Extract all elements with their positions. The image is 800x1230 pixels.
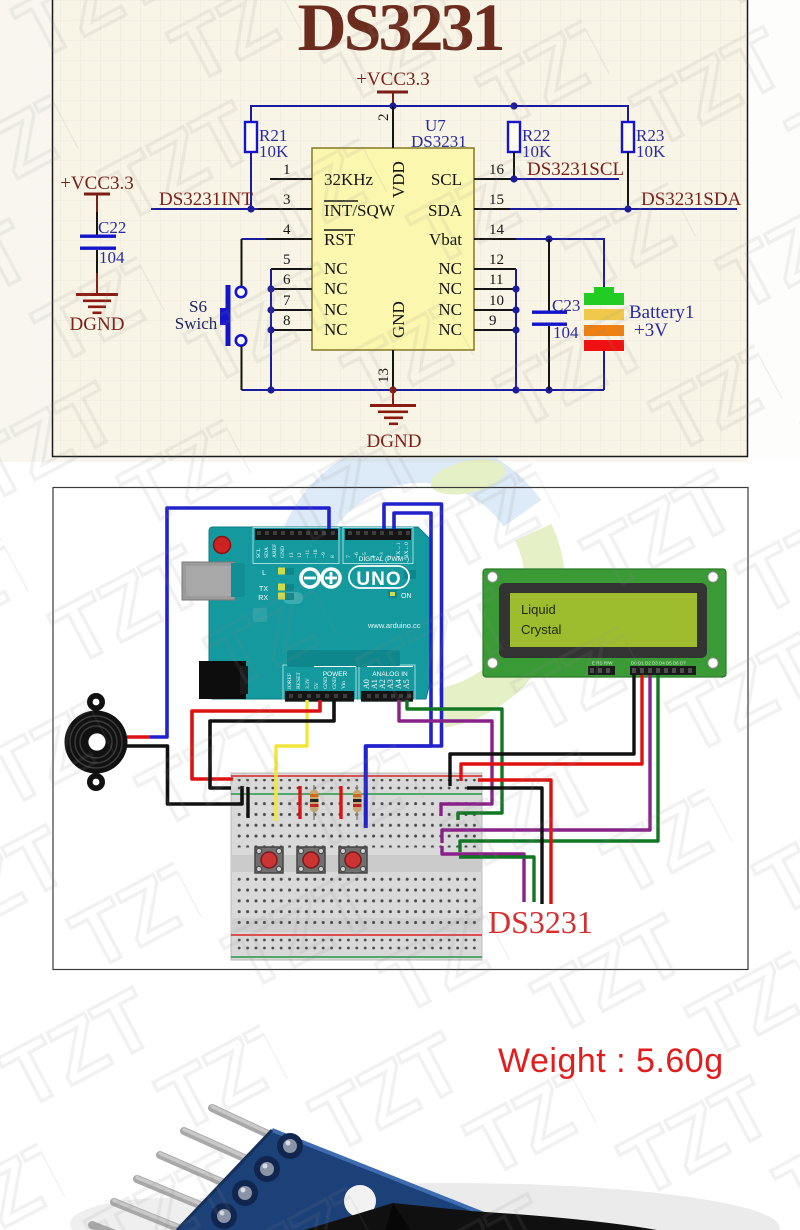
switch S6 — [175, 239, 266, 390]
pin 7 stub — [271, 293, 312, 310]
bottom pin headers — [285, 691, 354, 702]
wire purple to DS3231 — [442, 846, 524, 902]
POWER / ANALOG labels — [314, 666, 356, 668]
wire purple A4 — [399, 700, 492, 816]
pin 5 stub — [271, 252, 312, 269]
buzzer LS1 — [65, 693, 128, 791]
solder joints — [211, 1133, 303, 1229]
TZT swirl logo watermark — [299, 453, 545, 708]
pin 13 stub — [376, 350, 393, 390]
pin 3 stub — [258, 192, 312, 209]
wire NC right bus — [512, 269, 519, 390]
capacitor C23 — [532, 239, 580, 390]
battery Battery1 — [584, 287, 694, 390]
wire red LCD D1 — [461, 675, 642, 781]
wire black LCD D0 — [450, 675, 634, 786]
ICSP dots — [404, 570, 416, 579]
op-amp U7 DS3231 IC body — [312, 116, 474, 350]
wire yellow RESET — [276, 700, 307, 821]
wire bottom rail — [242, 386, 605, 393]
top pin labels — [256, 542, 410, 558]
wire black buzzer to breadboard — [127, 746, 242, 804]
logo infinity — [301, 569, 319, 587]
capacitor C22 — [80, 212, 126, 273]
header white outlines — [253, 528, 339, 564]
resistor on breadboard 2 — [353, 785, 362, 820]
pin 10 stub — [474, 293, 516, 310]
push button 1 — [255, 847, 283, 873]
wire black jumper — [246, 787, 249, 818]
node VCC junction — [389, 102, 396, 109]
darker chip — [287, 650, 400, 667]
breadboard — [231, 773, 482, 960]
resistor R21 — [245, 122, 289, 161]
wire red to DS3231 — [478, 780, 551, 904]
power port +VCC3.3 left — [60, 173, 134, 212]
wire R23 bottom lead — [627, 152, 629, 209]
Arduino UNO board — [182, 527, 430, 702]
wire blue D12 to buzzer — [150, 508, 329, 737]
resistor R23 — [622, 122, 666, 161]
wire purple LCD D2 — [442, 675, 650, 843]
resistor R22 — [508, 122, 552, 161]
wire red 5V — [192, 700, 320, 779]
schematic sheet background — [0, 0, 800, 462]
header pin slots — [257, 531, 411, 698]
wire green to DS3231 — [459, 857, 534, 902]
pin 14 stub — [474, 222, 516, 239]
pin 16 stub — [474, 162, 514, 179]
pcb — [140, 1130, 590, 1230]
wire R22 bottom lead — [513, 152, 515, 179]
wire red jumper 1 — [298, 786, 301, 819]
wire black to DS3231 — [467, 788, 542, 904]
power port +VCC3.3 top — [356, 69, 430, 106]
wire red buzzer stub — [127, 735, 150, 738]
ground DGND bottom — [367, 390, 422, 452]
net DS3231INT wire — [151, 189, 258, 213]
pin 11 stub — [474, 272, 516, 289]
pin 12 stub — [474, 252, 516, 269]
top pin headers — [255, 529, 338, 540]
push button 2 — [297, 847, 325, 873]
wire blue D2 loop — [366, 513, 431, 828]
wire NC left bus — [267, 269, 274, 390]
resistor on breadboard 1 — [310, 785, 319, 820]
sheet border — [53, 0, 748, 457]
pins — [92, 1108, 285, 1230]
net DS3231SDA wire — [510, 189, 742, 213]
wire red jumper 2 — [339, 786, 342, 819]
push button 3 — [339, 847, 367, 873]
wire green A5 — [407, 700, 502, 820]
UNO oval — [349, 566, 409, 588]
wire top rail — [251, 106, 628, 122]
bottom pin labels — [287, 672, 347, 689]
pin 15 stub — [474, 192, 510, 209]
pin 2 stub — [376, 106, 393, 148]
wire R21 bottom lead — [250, 152, 252, 209]
black battery holder — [298, 1203, 668, 1230]
pin 1 stub — [270, 162, 312, 179]
DS3231 module photo — [70, 1107, 780, 1230]
ground DGND left — [70, 273, 125, 335]
wire Vbat net — [516, 235, 604, 290]
node R22 top junction — [510, 102, 517, 109]
net DS3231SCL wire — [510, 159, 624, 183]
pin 8 stub — [271, 313, 312, 330]
pin 6 stub — [271, 272, 312, 289]
wire black GND — [210, 700, 334, 788]
white hole — [344, 1185, 376, 1217]
wire green LCD D3 — [460, 675, 658, 852]
wire blue D3 loop — [366, 504, 442, 828]
pin 9 stub — [474, 313, 516, 330]
LCD module — [483, 569, 726, 677]
pin 4 stub — [266, 222, 312, 239]
